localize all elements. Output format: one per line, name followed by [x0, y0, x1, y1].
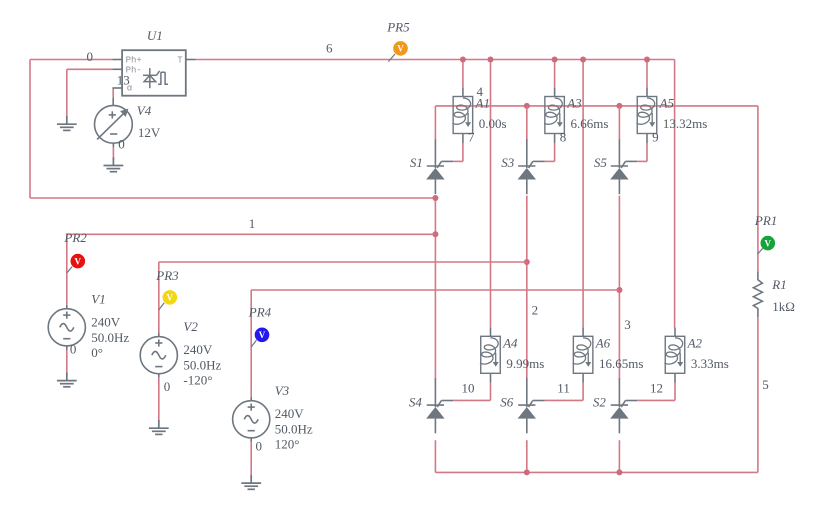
thyristor S5 [611, 139, 637, 194]
svg-text:PR5: PR5 [386, 19, 410, 34]
wire S3 anode down [526, 196, 528, 380]
thyristor S4 [427, 378, 453, 433]
relay coil A6 [582, 328, 584, 337]
svg-text:S2: S2 [593, 395, 607, 410]
svg-text:-120°: -120° [183, 373, 212, 388]
svg-text:A4: A4 [502, 335, 518, 350]
svg-text:PR4: PR4 [248, 305, 272, 320]
junction dot net0 [432, 195, 438, 201]
wire U1 alpha to V4 [112, 88, 114, 98]
wire A5 feed [646, 60, 648, 89]
junction dot net1 [432, 231, 438, 237]
svg-text:8: 8 [560, 130, 567, 145]
svg-text:A5: A5 [659, 96, 675, 111]
svg-text:3.33ms: 3.33ms [691, 356, 729, 371]
wire net 0 bottom segment [30, 197, 435, 199]
svg-text:A2: A2 [687, 335, 703, 350]
svg-text:50.0Hz: 50.0Hz [91, 330, 129, 345]
svg-text:V: V [259, 330, 266, 340]
svg-text:240V: 240V [275, 406, 305, 421]
svg-text:12V: 12V [138, 125, 161, 140]
wire A1 feed [462, 60, 464, 89]
svg-text:T: T [177, 56, 183, 66]
svg-text:7: 7 [468, 130, 475, 145]
svg-text:0: 0 [87, 49, 94, 64]
wire S3 cathode riser [526, 106, 528, 140]
relay coil A4 [490, 328, 492, 337]
wire bus to R1 drop [757, 106, 759, 272]
svg-text:S6: S6 [500, 395, 514, 410]
svg-text:50.0Hz: 50.0Hz [183, 357, 221, 372]
svg-text:V: V [397, 44, 404, 54]
wire net 0 left vertical [29, 60, 31, 199]
wire S1 cathode riser [434, 106, 436, 140]
wire gate drive [637, 399, 675, 401]
svg-text:0: 0 [70, 342, 77, 357]
wire V1 riser [66, 234, 68, 304]
junction dots bottom rail [524, 469, 530, 475]
svg-text:16.65ms: 16.65ms [599, 356, 643, 371]
svg-text:13.32ms: 13.32ms [663, 116, 707, 131]
svg-text:V1: V1 [91, 292, 105, 307]
wire V3 riser [250, 290, 252, 397]
junction dots cathode bus [524, 103, 530, 109]
voltage probe PR5 [388, 54, 395, 62]
relay coil A1 [462, 88, 464, 97]
wire S2 bottom [618, 440, 620, 472]
resistor R1 [753, 272, 762, 318]
wire cathode bus [435, 105, 758, 107]
svg-text:0°: 0° [91, 345, 103, 360]
AC source V1 [48, 305, 85, 350]
voltage probe PR3 [159, 303, 165, 310]
wire A3 feed [554, 60, 556, 89]
svg-text:PR2: PR2 [63, 230, 87, 245]
svg-text:Ph+: Ph+ [126, 56, 142, 66]
svg-text:V: V [167, 293, 174, 303]
svg-text:S5: S5 [594, 155, 608, 170]
wire bottom rail [435, 471, 758, 473]
DC source V4 [95, 98, 133, 147]
svg-text:V2: V2 [183, 319, 198, 334]
svg-text:9.99ms: 9.99ms [506, 356, 544, 371]
ground GND4 [149, 420, 169, 434]
thyristor S1 [427, 139, 453, 194]
relay coil A3 [554, 88, 556, 97]
svg-text:50.0Hz: 50.0Hz [275, 421, 313, 436]
svg-text:240V: 240V [183, 342, 213, 357]
voltage probe PR2 [67, 267, 72, 274]
svg-text:0: 0 [256, 439, 263, 454]
svg-text:V3: V3 [275, 383, 290, 398]
wire A4 column from rail [490, 60, 492, 328]
wire net 6 top rail [196, 59, 675, 61]
svg-text:A6: A6 [595, 335, 611, 350]
thyristor S6 [518, 378, 544, 433]
wire gate drive [453, 399, 490, 401]
wire S5 cathode riser [618, 106, 620, 140]
svg-text:0.00s: 0.00s [479, 116, 507, 131]
wire R1 bottom [757, 317, 759, 472]
svg-text:10: 10 [462, 381, 475, 396]
svg-text:11: 11 [557, 381, 570, 396]
wire S4 bottom [434, 440, 436, 472]
svg-text:PR3: PR3 [155, 268, 179, 283]
svg-text:PR1: PR1 [754, 213, 777, 228]
voltage probe PR4 [251, 340, 257, 347]
wire S5 anode down [618, 196, 620, 380]
svg-text:V4: V4 [137, 103, 152, 118]
wire gate drive [545, 160, 555, 162]
svg-text:6: 6 [326, 41, 333, 56]
thyristor S3 [518, 139, 544, 194]
svg-text:6.66ms: 6.66ms [571, 116, 609, 131]
wire gate drive [545, 399, 584, 401]
relay coil A5 [646, 88, 648, 97]
junction dots on top rail [460, 57, 466, 63]
wire gate drive [637, 160, 647, 162]
junction dot net3 [616, 287, 622, 293]
svg-text:S1: S1 [410, 155, 423, 170]
svg-text:A3: A3 [566, 96, 582, 111]
svg-text:4: 4 [477, 84, 484, 99]
wire V3 to ground [250, 442, 252, 478]
U1 inner thyristor-trigger icon [143, 68, 168, 88]
ground GND2 [104, 158, 124, 172]
svg-text:2: 2 [532, 302, 539, 317]
svg-text:9: 9 [652, 130, 659, 145]
svg-text:13: 13 [117, 73, 130, 88]
junction dot net2 [524, 259, 530, 265]
wire gate drive [453, 160, 463, 162]
voltage probe PR1 [758, 248, 764, 254]
svg-text:S3: S3 [501, 155, 515, 170]
ground GND3 [57, 373, 77, 387]
wire net 3 from V3 [251, 289, 619, 291]
wire A6 column from rail [582, 60, 584, 328]
svg-text:0: 0 [164, 379, 171, 394]
svg-text:R1: R1 [771, 277, 786, 292]
svg-text:U1: U1 [147, 28, 163, 43]
svg-text:3: 3 [624, 317, 631, 332]
svg-text:V: V [75, 256, 82, 266]
svg-text:12: 12 [650, 381, 663, 396]
wire Ph- to ground [67, 68, 113, 70]
wire rail drop to A2 column [674, 60, 676, 328]
svg-text:S4: S4 [409, 395, 423, 410]
wire V2 riser [158, 262, 160, 333]
svg-text:1kΩ: 1kΩ [772, 299, 795, 314]
thyristor S2 [611, 378, 637, 433]
svg-text:1: 1 [249, 216, 256, 231]
AC source V2 [140, 333, 177, 378]
wire net 1 from V1 [67, 233, 436, 235]
wire V2 to ground [158, 378, 160, 422]
wire V1 to ground [66, 350, 68, 376]
controller U1 box [122, 50, 186, 95]
ground GND1 [57, 116, 77, 130]
svg-text:V: V [765, 238, 772, 248]
wire V4 to ground [112, 147, 114, 160]
svg-text:5: 5 [762, 377, 769, 392]
svg-text:120°: 120° [275, 437, 300, 452]
wire net 2 from V2 [159, 261, 527, 263]
svg-text:240V: 240V [91, 315, 121, 330]
wire S1 anode down [434, 196, 436, 380]
svg-text:0: 0 [118, 137, 125, 152]
ground GND5 [241, 475, 261, 489]
wire net 0 top segment [30, 59, 112, 61]
relay coil A2 [674, 328, 676, 337]
wire S6 bottom [526, 440, 528, 472]
AC source V3 [233, 397, 270, 442]
